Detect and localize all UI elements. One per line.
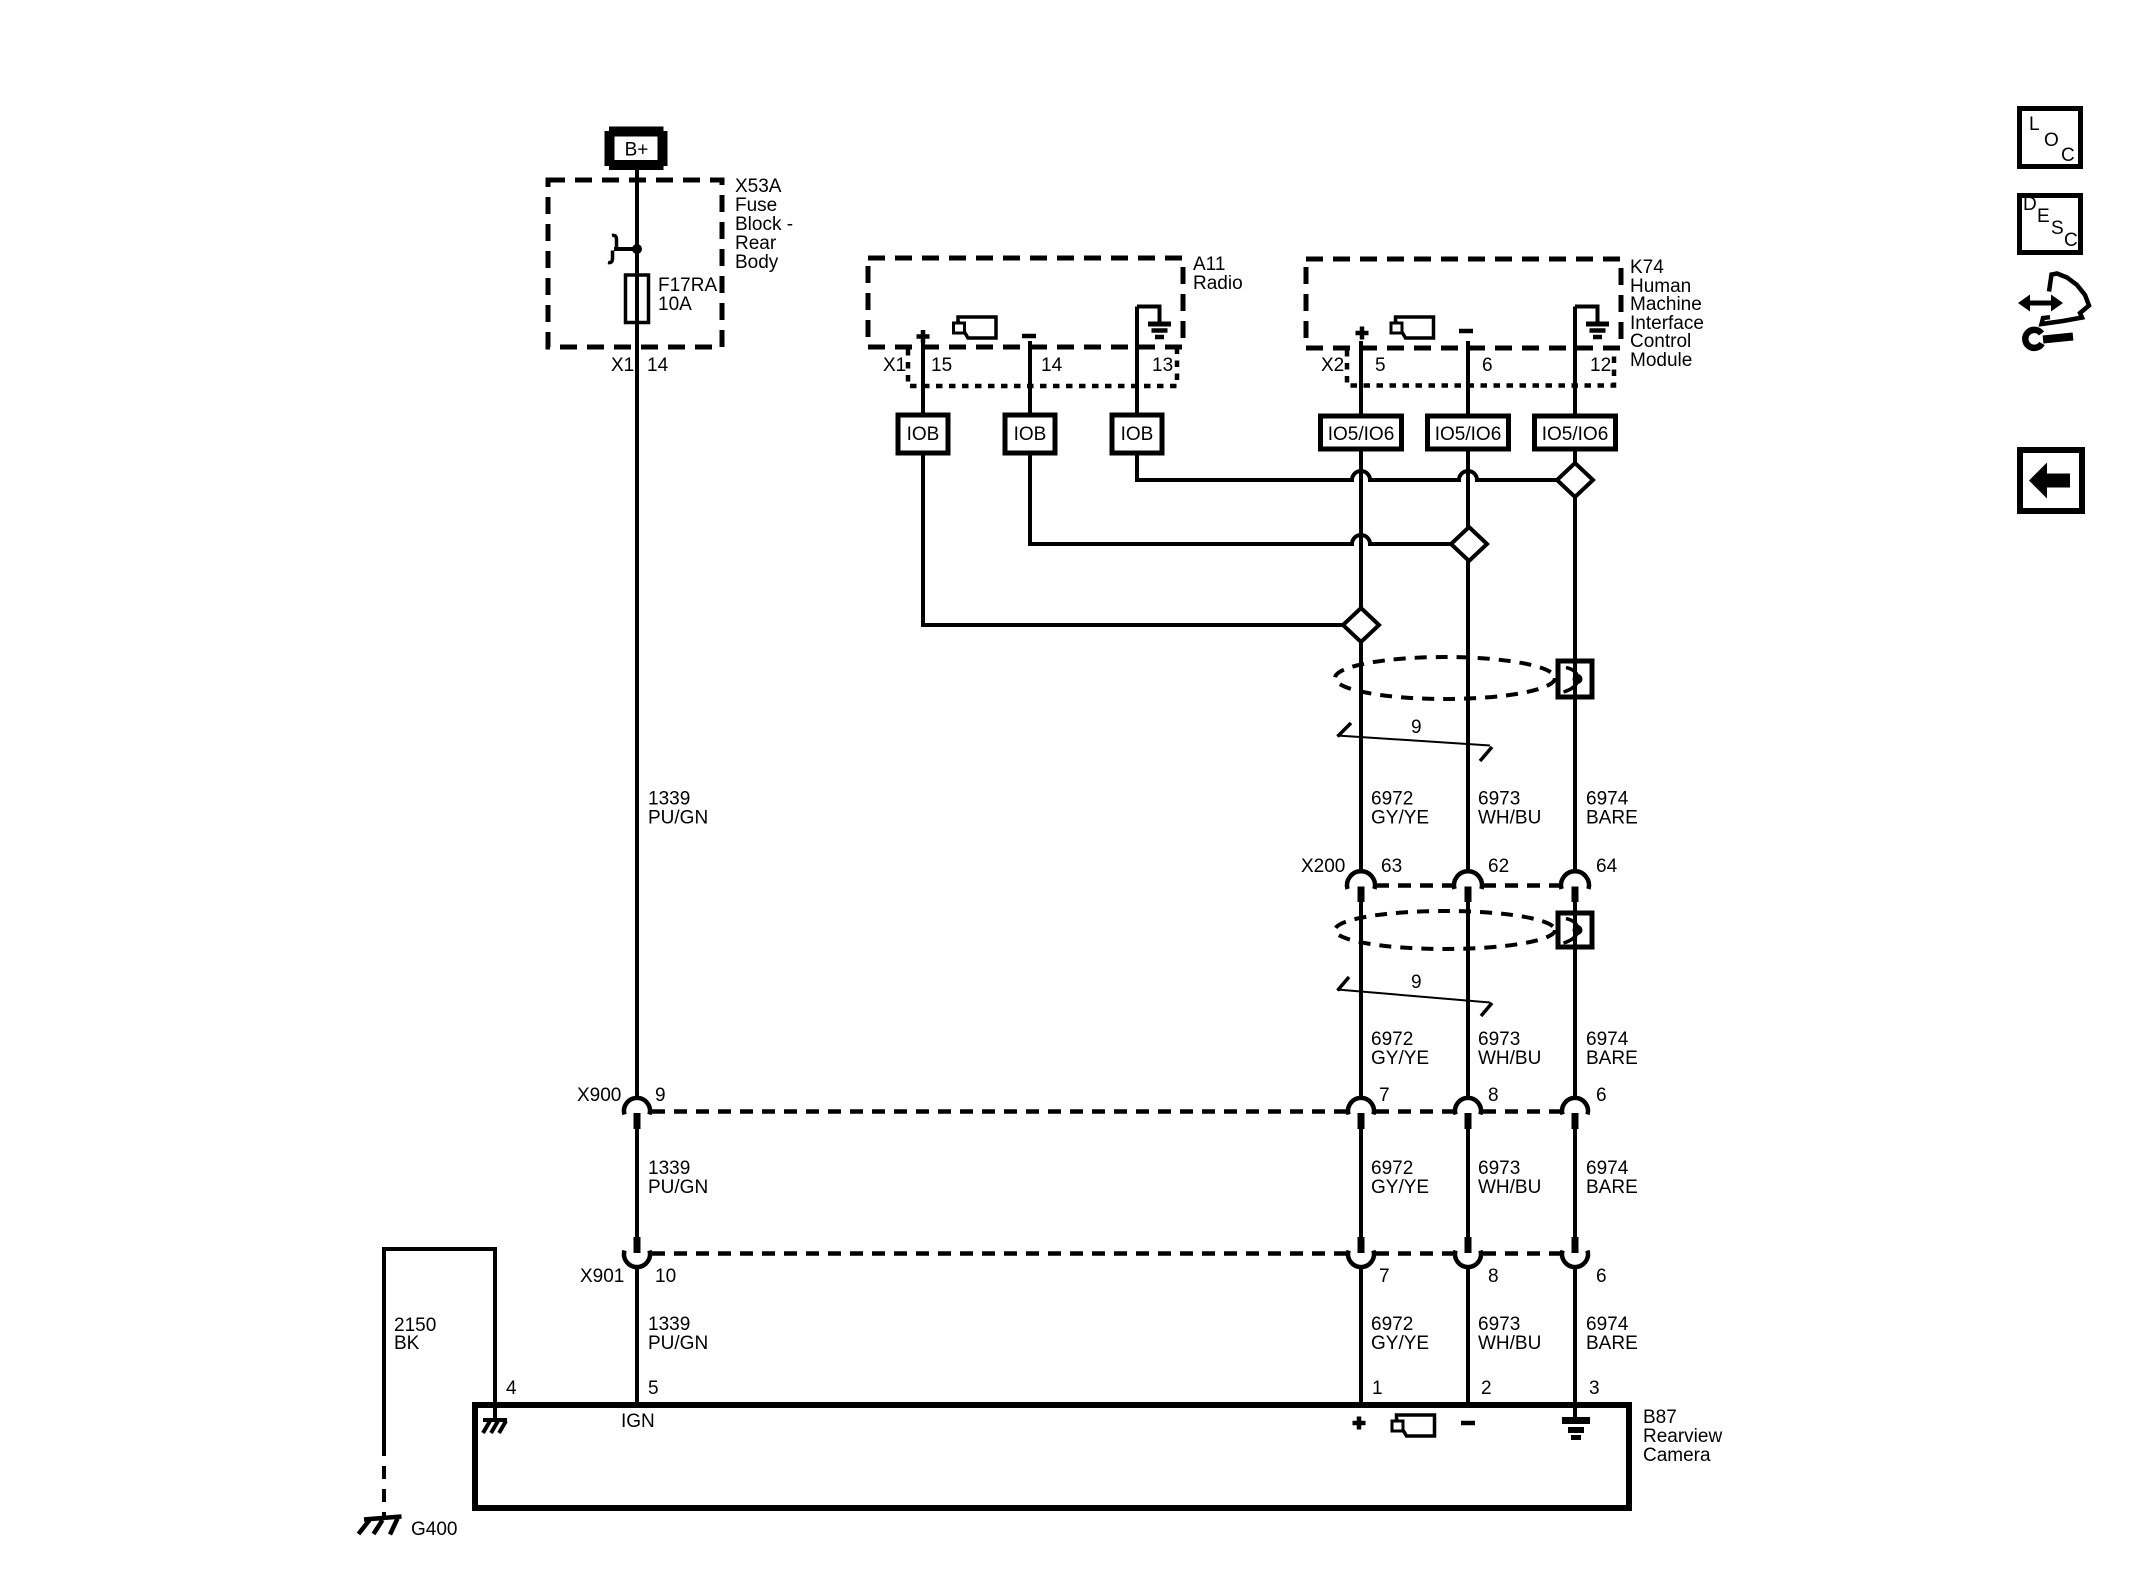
svg-text:Control: Control [1630,331,1691,352]
svg-text:IO5/IO6: IO5/IO6 [1435,424,1502,445]
wire HMI pin 5 to IO5/IO6 [1359,341,1363,416]
radio minus terminal [1022,334,1036,339]
svg-text:GY/YE: GY/YE [1371,1333,1429,1354]
inline connector X901 dashed line [652,1251,1560,1256]
svg-text:O: O [2044,130,2059,151]
svg-text:Body: Body [735,252,779,273]
svg-text:WH/BU: WH/BU [1478,1048,1541,1069]
svg-text:7: 7 [1379,1085,1390,1106]
labels X901 10 7 8 6 [580,1266,1607,1287]
rearview camera B87 box [475,1405,1629,1508]
IO5/IO6 box 1 [1321,416,1402,449]
svg-text:1339: 1339 [648,789,690,810]
wire label 6972 GY/YE row A [1371,789,1429,829]
svg-text:10A: 10A [658,294,692,315]
wire IOB3 to HMI ground line with crossover hops [1137,453,1557,480]
fuse tap connector symbol [608,235,637,262]
labels X200 63 62 64 [1301,856,1618,877]
svg-text:6973: 6973 [1478,1158,1520,1179]
wire GY/YE X900 to X901 [1359,1129,1363,1237]
wire label 6973 WH/BU row A [1478,789,1541,829]
HMI connector strip X2 [1347,350,1614,386]
wire label 6973 WH/BU row D [1478,1314,1541,1354]
X200 terminal 63 [1347,871,1375,902]
svg-text:PU/GN: PU/GN [648,1333,708,1354]
svg-text:64: 64 [1596,856,1618,877]
junction node on wire [632,244,642,254]
svg-text:Radio: Radio [1193,273,1243,294]
wire label 1339 PU/GN row A [648,789,708,829]
camera plus terminal [1353,1417,1366,1430]
wire WH/BU X200 to X900 [1466,902,1470,1100]
svg-text:GY/YE: GY/YE [1371,1048,1429,1069]
svg-text:9: 9 [1411,972,1422,993]
wire 1339 X900 to X901 [635,1129,639,1237]
svg-text:6974: 6974 [1586,1029,1629,1050]
X901 terminal 10 [624,1237,650,1267]
svg-text:PU/GN: PU/GN [648,1177,708,1198]
wire 2150 BK camera pin 4 to G400 [384,1249,495,1443]
svg-text:G400: G400 [411,1519,457,1540]
wire GY/YE X200 to X900 [1359,902,1363,1100]
camera internal ground symbol at pin 3 [1562,1405,1590,1438]
svg-text:6: 6 [1596,1266,1607,1287]
splice diamond on bare wire [1557,463,1593,497]
svg-text:Rearview: Rearview [1643,1426,1722,1447]
svg-text:1339: 1339 [648,1314,690,1335]
svg-text:K74: K74 [1630,257,1664,278]
wire IOB1 to HMI plus line [923,453,1343,625]
camera minus terminal [1461,1421,1475,1426]
X901 terminal 6 [1562,1237,1588,1267]
HMI internal ground symbol [1575,307,1609,338]
IOB box 3 [1112,415,1162,453]
sidebar back button [2020,450,2082,511]
svg-text:6973: 6973 [1478,1029,1520,1050]
wire label 6972 GY/YE row C [1371,1158,1429,1198]
svg-text:4: 4 [506,1378,517,1399]
X900 terminal 8 [1455,1098,1481,1129]
wire label 1339 PU/GN row D [648,1314,708,1354]
svg-text:6973: 6973 [1478,1314,1520,1335]
X901 terminal 8 [1455,1237,1481,1267]
wire label 6972 GY/YE row B [1371,1029,1429,1069]
wire GY/YE X901 to camera pin 1 [1359,1267,1363,1404]
sidebar DESC button [2020,194,2081,253]
svg-text:IO5/IO6: IO5/IO6 [1328,424,1395,445]
svg-text:5: 5 [1375,355,1386,376]
svg-text:X2: X2 [1321,355,1344,376]
svg-text:6: 6 [1482,355,1493,376]
wire label 1339 PU/GN row C [648,1158,708,1198]
camera internal chassis ground at pin 4 [483,1405,507,1433]
svg-text:GY/YE: GY/YE [1371,1177,1429,1198]
svg-text:14: 14 [647,355,669,376]
svg-text:B87: B87 [1643,1407,1677,1428]
wire 1339 X901 to camera pin 5 [635,1267,639,1404]
HMI camera signal icon [1391,317,1434,338]
radio camera signal icon [954,317,997,338]
svg-text:IOB: IOB [907,424,940,445]
label A11 Radio [1193,254,1243,294]
wire WH/BU X901 to camera pin 2 [1466,1267,1470,1404]
fuse F17RA 10A [626,275,649,323]
sidebar LOC button [2020,109,2081,167]
radio internal ground symbol [1137,307,1171,338]
fuse block X53A dashed box [548,180,722,347]
wire 2150 BK dashed segment [382,1443,386,1516]
pin labels X2 5 6 12 (HMI) [1321,355,1611,376]
svg-text:3: 3 [1589,1378,1600,1399]
svg-text:Block -: Block - [735,214,793,235]
wire BARE X200 to X900 [1573,902,1577,1100]
camera pin labels 4 5 1 2 3 [506,1378,1600,1399]
power terminal B+ [605,127,668,171]
svg-text:X1: X1 [883,355,906,376]
svg-text:A11: A11 [1193,254,1225,275]
svg-text:9: 9 [655,1085,666,1106]
X900 terminal 6 [1562,1098,1588,1129]
wire radio pin 15 to IOB [921,341,925,415]
IOB box 2 [1005,415,1055,453]
wire label 6973 WH/BU row B [1478,1029,1541,1069]
shield termination box upper [1558,661,1592,697]
svg-text:PU/GN: PU/GN [648,808,708,829]
svg-text:C: C [2061,145,2075,166]
svg-text:6: 6 [1596,1085,1607,1106]
inline connector X900 dashed line [652,1109,1560,1114]
svg-text:8: 8 [1488,1266,1499,1287]
svg-text:C: C [2064,230,2078,251]
label X53A Fuse Block - Rear Body [735,176,793,273]
ground G400 symbol [359,1517,402,1535]
svg-text:1339: 1339 [648,1158,690,1179]
svg-text:X900: X900 [577,1085,621,1106]
svg-text:WH/BU: WH/BU [1478,808,1541,829]
HMI minus terminal [1459,329,1473,334]
svg-text:6972: 6972 [1371,1029,1413,1050]
splice diamond on WH/BU wire [1451,527,1487,561]
wire WH/BU diamond to X200 [1466,561,1470,872]
shield ellipse (drain) upper [1335,657,1555,699]
twisted pair symbol lower [1337,977,1492,1016]
svg-text:Rear: Rear [735,233,777,254]
radio connector strip X1 [908,349,1177,386]
labels X900 9 7 8 6 [577,1085,1607,1106]
svg-text:WH/BU: WH/BU [1478,1333,1541,1354]
svg-text:15: 15 [931,355,952,376]
svg-text:S: S [2051,218,2064,239]
wire W1 B+ to fuse block pin (1339 circuit) [635,170,639,1100]
svg-text:X53A: X53A [735,176,782,197]
svg-text:X200: X200 [1301,856,1345,877]
wire radio pin 13 to IOB [1135,307,1139,416]
twisted pair symbol upper [1337,723,1492,761]
splice diamond on GY/YE wire [1343,608,1379,642]
X900 terminal 7 [1348,1098,1374,1129]
wire label 6972 GY/YE row D [1371,1314,1429,1354]
svg-text:GY/YE: GY/YE [1371,808,1429,829]
svg-text:6974: 6974 [1586,1158,1629,1179]
wire label 6973 WH/BU row C [1478,1158,1541,1198]
svg-text:7: 7 [1379,1266,1390,1287]
svg-text:6973: 6973 [1478,789,1520,810]
svg-text:BARE: BARE [1586,808,1638,829]
wire label 6974 BARE row C [1586,1158,1638,1198]
svg-text:63: 63 [1381,856,1402,877]
wire WH/BU X900 to X901 [1466,1129,1470,1237]
svg-text:F17RA: F17RA [658,275,717,296]
svg-text:Module: Module [1630,350,1692,371]
svg-text:6974: 6974 [1586,789,1629,810]
wire BARE X900 to X901 [1573,1129,1577,1237]
svg-text:L: L [2029,114,2040,135]
svg-text:62: 62 [1488,856,1509,877]
svg-text:6974: 6974 [1586,1314,1629,1335]
radio plus terminal [917,330,930,343]
label F17RA 10A [658,275,717,315]
label B87 Rearview Camera [1643,1407,1722,1466]
svg-text:IO5/IO6: IO5/IO6 [1542,424,1609,445]
svg-text:B+: B+ [625,140,649,161]
wire IOB2 to HMI minus line with crossover hop [1030,453,1451,544]
pin labels X1 15 14 13 (radio) [883,355,1173,376]
svg-text:IOB: IOB [1121,424,1154,445]
X901 terminal 7 [1348,1237,1374,1267]
inline connector X200 dashed line [1376,883,1560,888]
svg-text:Camera: Camera [1643,1445,1711,1466]
IO5/IO6 box 3 [1535,416,1616,449]
svg-text:2: 2 [1481,1378,1492,1399]
svg-text:13: 13 [1152,355,1173,376]
svg-text:8: 8 [1488,1085,1499,1106]
svg-text:IOB: IOB [1014,424,1047,445]
X200 terminal 62 [1454,871,1482,902]
wire HMI pin 12 to IO5/IO6 [1573,307,1577,417]
X900 terminal 9 [624,1098,650,1129]
svg-text:BK: BK [394,1333,420,1354]
svg-text:IGN: IGN [621,1411,655,1432]
wire GY/YE diamond to X200 [1359,642,1363,872]
wire label 6974 BARE row B [1586,1029,1638,1069]
svg-text:BARE: BARE [1586,1048,1638,1069]
svg-text:Fuse: Fuse [735,195,777,216]
radio A11 dashed box [868,258,1183,347]
svg-text:12: 12 [1590,355,1611,376]
wire label 6974 BARE row A [1586,789,1638,829]
wire BARE X901 to camera pin 3 [1573,1267,1577,1404]
HMI plus terminal [1356,327,1369,340]
svg-text:D: D [2023,194,2037,215]
label K74 Human Machine Interface Control Module [1630,257,1704,371]
wire IO5/IO6 box1 to diamond [1359,449,1363,608]
svg-text:WH/BU: WH/BU [1478,1177,1541,1198]
X200 terminal 64 [1561,871,1589,902]
wire label 6974 BARE row D [1586,1314,1638,1354]
svg-text:X901: X901 [580,1266,624,1287]
svg-text:14: 14 [1041,355,1063,376]
HMI control module K74 dashed box [1306,259,1621,348]
svg-text:10: 10 [655,1266,676,1287]
IO5/IO6 box 2 [1428,416,1509,449]
svg-text:E: E [2037,206,2050,227]
svg-text:9: 9 [1411,717,1422,738]
sidebar diagnostic icon (arrow, outline, wrench) [2018,274,2089,348]
svg-text:6972: 6972 [1371,789,1413,810]
svg-text:Machine: Machine [1630,294,1702,315]
wire radio pin 14 to IOB [1028,341,1032,415]
pin label X1 14 (fuse block) [611,355,669,376]
wire IO5/IO6 box2 to diamond [1466,449,1470,527]
shield ellipse (drain) lower [1335,911,1555,949]
wire HMI pin 6 to IO5/IO6 [1466,341,1470,416]
svg-text:BARE: BARE [1586,1177,1638,1198]
wire IO5/IO6 box3 to diamond [1573,449,1577,463]
svg-text:X1: X1 [611,355,634,376]
svg-text:1: 1 [1372,1378,1383,1399]
svg-text:5: 5 [648,1378,659,1399]
svg-text:6972: 6972 [1371,1314,1413,1335]
svg-text:6972: 6972 [1371,1158,1413,1179]
svg-text:BARE: BARE [1586,1333,1638,1354]
wire label 2150 BK [394,1315,436,1354]
IOB box 1 [898,415,948,453]
wire BARE diamond to X200 [1573,497,1577,872]
shield termination box lower [1558,913,1592,947]
camera icon in B87 [1392,1415,1435,1436]
